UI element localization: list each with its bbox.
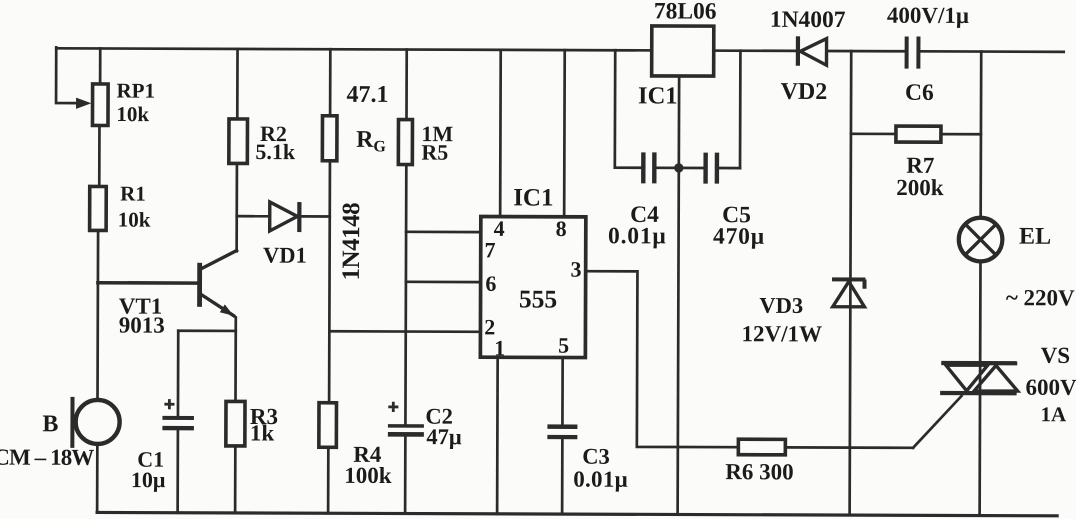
capacitor C6 [907,36,919,68]
capacitor C2 [388,402,424,435]
svg-text:C3: C3 [582,444,610,469]
wire C4/C5 node to ground rail [678,168,679,515]
svg-text:12V/1W: 12V/1W [742,321,823,346]
wire R3 to ground [234,446,237,513]
svg-text:VS: VS [1041,343,1070,368]
zener diode VD3 [832,279,865,306]
svg-text:VD3: VD3 [759,293,803,318]
wire rail drop to C5 [739,51,742,168]
svg-text:B: B [42,411,58,437]
wire node to pin 2 of 555 [329,330,480,333]
svg-text:~ 220V: ~ 220V [1006,285,1075,310]
wire C1 bottom lead to ground [176,430,179,513]
wire rail to R2 top [236,49,239,119]
wire R6 to gate [785,446,913,449]
wire bottom ground rail [97,512,1057,515]
svg-text:8: 8 [556,216,567,241]
wire VD1 anode [237,215,270,218]
svg-text:5.1k: 5.1k [255,139,296,164]
svg-text:1: 1 [494,335,505,360]
wire 555 pin 1 to ground [496,357,499,513]
svg-text:100k: 100k [344,463,392,488]
wire RP1 to R1 [98,125,101,186]
transistor VT1 [197,263,234,316]
resistor R5 [398,120,412,165]
resistor R7 [896,126,941,142]
wire R5 bottom down to C2 [404,164,408,424]
wire emitter diagonal of VT1 [201,295,233,316]
svg-text:470μ: 470μ [713,224,765,250]
capacitor C1 [162,399,194,428]
wire R7 branch [851,132,981,135]
wire VD2 node down through VD3 to ground [850,51,852,515]
svg-text:CM – 18W: CM – 18W [0,445,94,470]
svg-text:0.01μ: 0.01μ [608,223,667,249]
svg-text:6: 6 [485,271,496,296]
wire rail to RG top [329,49,332,115]
svg-text:EL: EL [1019,224,1051,250]
svg-text:1A: 1A [1040,402,1067,426]
diode VD2 [798,36,827,65]
resistor R3 [226,401,245,446]
capacitor C3 [547,427,577,438]
wire gate diagonal of VS [913,396,961,448]
svg-text:0.01μ: 0.01μ [573,467,628,492]
svg-text:200k: 200k [896,175,944,200]
svg-text:9013: 9013 [119,313,165,338]
resistor RG [322,116,337,161]
diode VD1 [270,202,300,232]
svg-text:RG: RG [356,127,386,156]
wire C4 C5 link line [615,166,740,169]
resistor R4 [319,403,337,448]
resistor R2 [229,119,248,164]
wire C1 top lead [177,331,180,416]
wire R2 bottom to collector [235,163,238,251]
wire rail drop to C4 [613,50,616,167]
wire rail to R5 top [405,50,408,120]
wire VD1 cathode to node [301,215,330,218]
svg-text:IC1: IC1 [513,184,553,211]
resistor R1 [90,186,107,230]
wire C2 bottom to ground [404,436,407,513]
regulator IC1 78L06 [652,26,714,76]
IC U1 555 timer [480,217,585,358]
svg-text:78L06: 78L06 [654,0,717,25]
svg-text:7: 7 [484,237,495,262]
svg-text:10μ: 10μ [131,467,166,492]
svg-text:R1: R1 [120,182,146,206]
svg-text:1N4007: 1N4007 [770,7,846,33]
lamp EL [959,218,1003,262]
wire rail to lamp EL [979,52,982,220]
wire rail to 555 pin 8 top [563,50,566,217]
capacitor C4 [643,152,654,183]
wire lamp through triac to ground [978,261,982,516]
wire R5 node to pin 6 of 555 [406,280,481,283]
triac VS [940,363,1018,393]
capacitor C5 [706,153,717,184]
svg-text:47.1: 47.1 [347,82,389,108]
svg-text:5: 5 [558,333,569,358]
junction dot C4/C5 node [674,163,683,172]
svg-text:R5: R5 [421,140,448,165]
wire collector diagonal of VT1 [201,250,236,268]
wire R4 to ground [327,447,330,513]
svg-text:10k: 10k [116,102,149,126]
wire top supply rail [56,48,1063,52]
wire 555 pin 3 output to R6 [585,271,739,447]
svg-text:R6 300: R6 300 [725,459,793,484]
wire microphone to ground rail [96,442,99,512]
resistor R6 [738,439,785,455]
svg-text:10k: 10k [118,208,151,232]
svg-text:IC1: IC1 [638,82,678,109]
wire rail to RP1 top [99,48,102,84]
svg-text:1N4148: 1N4148 [338,203,365,281]
wire left drop to RP1 wiper [56,47,80,103]
wire C3 to ground [561,439,564,514]
potentiometer RP1 [92,84,108,126]
wire R1 down to base node [96,229,99,401]
svg-text:400V/1μ: 400V/1μ [887,3,969,28]
wire R5 node to pin 4 of 555 [406,230,481,233]
svg-text:600V: 600V [1026,375,1076,400]
wire emitter down to R3 [234,316,236,403]
svg-text:VD1: VD1 [263,243,307,268]
wire 78L06 output to C4/C5 node [677,75,680,167]
wire rail to 555 pin 4 top [499,50,502,217]
svg-text:555: 555 [519,284,557,313]
svg-text:VD2: VD2 [781,79,828,105]
microphone B [72,397,119,448]
svg-text:RP1: RP1 [116,79,155,103]
wire emitter node to C1 [178,329,235,332]
svg-text:47μ: 47μ [426,424,462,449]
wire base of VT1 [98,281,197,285]
node RP1 wiper arrow [76,98,91,109]
wire RG bottom through VD1 node to R4 [328,161,332,403]
svg-text:1k: 1k [250,420,275,445]
wire 555 pin 5 to C3 [561,358,564,425]
svg-text:3: 3 [570,257,581,282]
svg-text:C6: C6 [905,80,934,106]
